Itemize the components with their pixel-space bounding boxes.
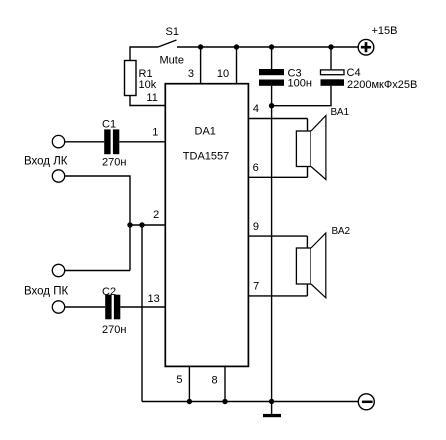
svg-text:Mute: Mute (160, 55, 184, 67)
capacitor C2 (105, 295, 111, 320)
svg-text:3: 3 (188, 68, 194, 80)
svg-text:6: 6 (253, 162, 259, 174)
svg-text:270н: 270н (102, 157, 126, 169)
wire: pin 6 to speaker BA1 (248, 176, 307, 178)
svg-text:13: 13 (148, 293, 160, 305)
svg-text:2200мкФх25В: 2200мкФх25В (347, 79, 417, 91)
svg-text:100н: 100н (288, 78, 312, 90)
node: junction C3/C4 bottom (269, 103, 274, 108)
wire: bottom ground rail (142, 401, 358, 403)
svg-text:ВА2: ВА2 (332, 226, 351, 237)
wire: pin 10 to top rail (236, 47, 238, 83)
capacitor C1 (104, 129, 110, 154)
wire: pin 9 to speaker BA2 (248, 235, 307, 237)
terminal: input LK hot (52, 135, 64, 147)
svg-text:10: 10 (217, 68, 229, 80)
terminal: input LK cold (52, 170, 64, 182)
svg-text:11: 11 (146, 92, 157, 104)
wire: ground vertical from C3 down to bottom rail (271, 86, 273, 402)
node: junction pin10/top rail (234, 44, 239, 49)
terminal: input PK hot (52, 301, 64, 313)
wire: top rail corner down to R1 (129, 46, 131, 60)
node: junction input common / pin2 (127, 222, 132, 227)
svg-text:ВА1: ВА1 (331, 107, 350, 118)
wire: C1 to pin 1 (119, 141, 165, 143)
wire: C2 to pin 13 (120, 306, 165, 308)
svg-text:C1: C1 (102, 119, 116, 131)
svg-text:TDA1557: TDA1557 (183, 150, 229, 162)
ground symbol (271, 402, 273, 414)
switch S1 (158, 40, 177, 47)
svg-text:Вход ПК: Вход ПК (24, 285, 68, 297)
node: junction pin5/bottom rail (187, 399, 192, 404)
svg-text:DA1: DA1 (195, 126, 216, 138)
svg-text:7: 7 (253, 280, 259, 292)
node: junction pin3/top rail (198, 44, 203, 49)
wire: R1 bottom to pin 11 (130, 96, 166, 106)
svg-text:2: 2 (153, 209, 159, 221)
wire: ground drop from pin2 node to bottom rail (141, 225, 143, 402)
svg-text:8: 8 (212, 375, 218, 387)
node: junction pin2 / ground drop (139, 222, 144, 227)
svg-text:9: 9 (253, 221, 259, 233)
wire: LK cold terminal to common vertical (65, 176, 130, 271)
svg-text:S1: S1 (166, 26, 179, 38)
node: junction C4/top rail (328, 44, 333, 49)
node: junction pin8/bottom rail (222, 399, 227, 404)
svg-text:C4: C4 (347, 67, 361, 79)
wire: pin 2 (130, 224, 166, 226)
wire: pin 8 to bottom rail (224, 366, 226, 402)
svg-text:+15В: +15В (372, 25, 398, 37)
wire: pin 4 to speaker BA1 (248, 118, 307, 120)
node: junction C3/top rail (269, 44, 274, 49)
svg-text:C2: C2 (102, 286, 116, 298)
svg-text:1: 1 (152, 126, 158, 138)
terminal minus (358, 394, 374, 410)
speaker BA2 (306, 236, 308, 296)
wire: terminal to C2 (65, 306, 106, 308)
svg-text:270н: 270н (102, 324, 126, 336)
resistor R1 (125, 61, 137, 96)
op-amp IC DA1 TDA1557 body (165, 84, 248, 367)
wire: terminal to C1 (65, 141, 105, 143)
svg-text:5: 5 (176, 374, 182, 386)
terminal: input PK cold (52, 264, 64, 276)
capacitor C4 electrolytic (330, 47, 332, 69)
wire: pin 3 to top rail (200, 47, 202, 83)
wire: PK cold terminal to common vertical (65, 270, 130, 272)
speaker BA1 (307, 119, 309, 178)
wire: pin 5 to bottom rail (188, 366, 190, 402)
svg-text:4: 4 (253, 103, 259, 115)
svg-text:10k: 10k (139, 79, 157, 91)
node: junction ground vertical/bottom rail (269, 399, 274, 404)
terminal +15V (358, 39, 374, 55)
wire: +15V top rail (130, 46, 358, 48)
svg-text:Вход ЛК: Вход ЛК (24, 155, 68, 167)
wire: pin 7 to speaker BA2 (248, 295, 307, 297)
capacitor C3 (271, 47, 273, 69)
